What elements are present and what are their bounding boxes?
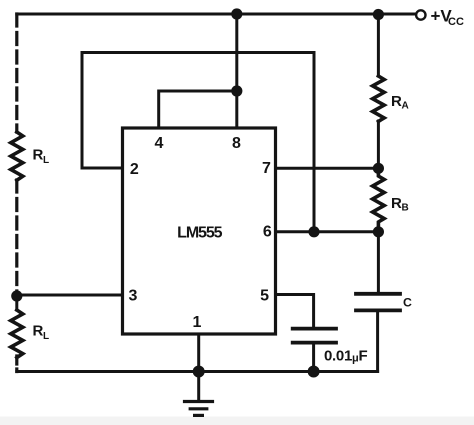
svg-text:1: 1 [193, 314, 202, 331]
svg-text:4: 4 [155, 135, 164, 152]
capacitor C plates [356, 294, 400, 311]
svg-text:C: C [403, 295, 412, 309]
terminal +Vcc [416, 10, 425, 19]
svg-text:2: 2 [130, 161, 139, 178]
wire pin3 [17, 294, 123, 297]
wire pin1 to ground [197, 334, 200, 372]
wire pin7 [276, 167, 379, 170]
svg-text:5: 5 [260, 288, 269, 305]
node D2 RA top rail [373, 9, 384, 20]
svg-text:LM555: LM555 [177, 225, 222, 242]
node D5 pin6 RB C [373, 226, 384, 237]
node D6 pin2 pin6 [308, 226, 319, 237]
svg-text:8: 8 [232, 135, 241, 152]
svg-text:R: R [33, 147, 44, 164]
wire RL lower dashed stub [15, 356, 18, 372]
wire pin4 [159, 91, 237, 128]
svg-text:B: B [402, 203, 409, 214]
svg-text:R: R [33, 323, 44, 340]
svg-text:7: 7 [262, 160, 271, 177]
op-amp U1 LM555 box [123, 128, 276, 334]
wire node6 to cap C [377, 232, 380, 294]
wire pin6 [276, 230, 379, 233]
wire RA to node7 [377, 121, 380, 168]
svg-text:CC: CC [448, 16, 464, 28]
wire bypass cap to rail [312, 345, 315, 372]
wire Vcc to RA [377, 14, 380, 76]
svg-text:0.01μF: 0.01μF [324, 348, 367, 365]
node pin3 junction [11, 290, 22, 301]
wire pin5 to bypass cap [276, 295, 314, 327]
svg-text:3: 3 [129, 288, 138, 305]
resistor RL (lower, to ground) [11, 310, 23, 358]
wire RL dashed upper lead [15, 14, 18, 132]
svg-text:L: L [43, 155, 49, 166]
node D9 bypass cap rail [308, 366, 320, 378]
resistor RB [373, 168, 385, 232]
ground [197, 372, 200, 402]
svg-text:R: R [391, 93, 402, 110]
bottom scan band [0, 417, 474, 425]
wire cap C to rail [376, 310, 379, 371]
resistor RL (upper, to Vcc) [11, 132, 23, 180]
svg-text:R: R [391, 195, 402, 212]
svg-text:A: A [402, 101, 409, 112]
node D8 pin1 ground rail [193, 366, 205, 378]
wire node to lower RL [15, 296, 18, 310]
node D1 pin8 top rail [231, 8, 242, 19]
wire RL dashed lower lead [15, 180, 18, 293]
wire pin2 to pin6 net [82, 53, 314, 232]
node D3 pin4/pin8 [231, 85, 242, 96]
capacitor 0.01uF plates [293, 329, 336, 343]
svg-text:6: 6 [263, 224, 272, 241]
wire pin8 [235, 14, 238, 128]
wire top rail [17, 13, 415, 16]
svg-text:L: L [43, 331, 49, 342]
node D4 pin7 RA RB [373, 163, 384, 174]
wire bottom rail [17, 370, 378, 373]
resistor RA [373, 76, 385, 121]
